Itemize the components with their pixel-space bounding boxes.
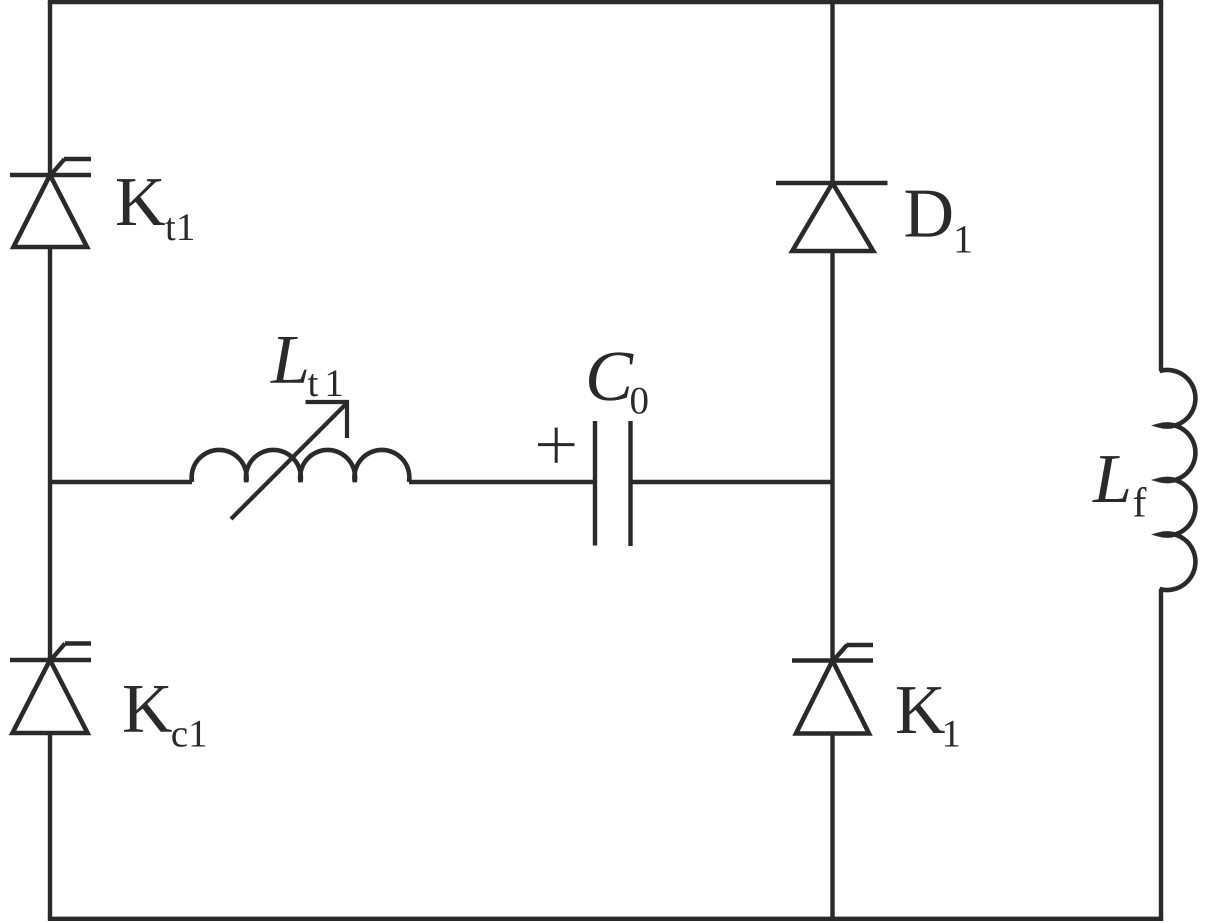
wire left border upper segment: [48, 2, 52, 175]
inductor Lt1 variable arrow: [231, 402, 347, 519]
wire middle horizontal left segment: [50, 480, 192, 484]
wire middle vertical lower segment: [830, 734, 834, 919]
wire right border upper segment: [1159, 2, 1163, 371]
wire middle vertical upper segment: [830, 2, 834, 183]
label Lt1: [270, 337, 341, 396]
wire middle vertical between D1 and K1: [830, 251, 834, 661]
thyristor Kt1: [10, 159, 91, 247]
label K1: [897, 687, 959, 746]
inductor Lf coil: [1160, 370, 1196, 590]
thyristor K1: [792, 645, 873, 734]
plus polarity mark: [538, 428, 575, 463]
label Kc1: [124, 686, 205, 747]
inductor Lt1 coil: [192, 450, 410, 482]
diode D1: [776, 183, 888, 251]
label Kt1: [117, 179, 193, 240]
wire left border middle segment: [48, 247, 52, 660]
thyristor Kc1: [10, 644, 91, 734]
wire top border: [48, 0, 1163, 4]
label D1: [906, 191, 971, 253]
wire left border lower segment: [48, 733, 52, 919]
wire middle horizontal right segment: [631, 480, 833, 484]
label Lf: [1092, 456, 1146, 516]
wire middle horizontal center segment: [409, 480, 595, 484]
capacitor C0: [595, 421, 631, 546]
wire bottom border: [48, 917, 1163, 921]
label C0: [589, 352, 648, 414]
wire right border lower segment: [1159, 589, 1163, 919]
